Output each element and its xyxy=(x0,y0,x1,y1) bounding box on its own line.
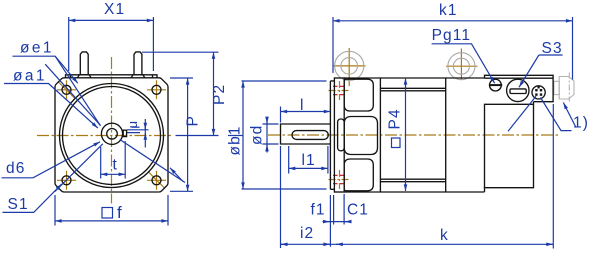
svg-text:P2: P2 xyxy=(211,84,228,105)
svg-text:k: k xyxy=(440,227,449,244)
svg-text:X1: X1 xyxy=(104,1,125,18)
svg-text:d6: d6 xyxy=(6,160,25,177)
svg-text:l1: l1 xyxy=(302,152,316,169)
svg-text:u: u xyxy=(125,120,140,128)
svg-text:øb1: øb1 xyxy=(227,125,244,155)
svg-text:øe1: øe1 xyxy=(20,40,54,57)
svg-text:S1: S1 xyxy=(8,196,29,213)
svg-text:C1: C1 xyxy=(347,202,369,219)
svg-text:øa1: øa1 xyxy=(13,68,47,85)
svg-text:f: f xyxy=(117,203,123,222)
svg-text:S3: S3 xyxy=(542,40,563,57)
svg-text:P4: P4 xyxy=(387,108,404,129)
svg-text:ød: ød xyxy=(249,125,266,145)
svg-text:1): 1) xyxy=(573,115,589,132)
svg-text:l: l xyxy=(300,97,305,114)
svg-text:P: P xyxy=(185,115,202,126)
svg-text:t: t xyxy=(113,157,118,174)
svg-text:k1: k1 xyxy=(439,2,458,19)
svg-text:Pg11: Pg11 xyxy=(432,27,471,44)
svg-text:f1: f1 xyxy=(311,202,326,219)
svg-text:i2: i2 xyxy=(300,225,314,242)
